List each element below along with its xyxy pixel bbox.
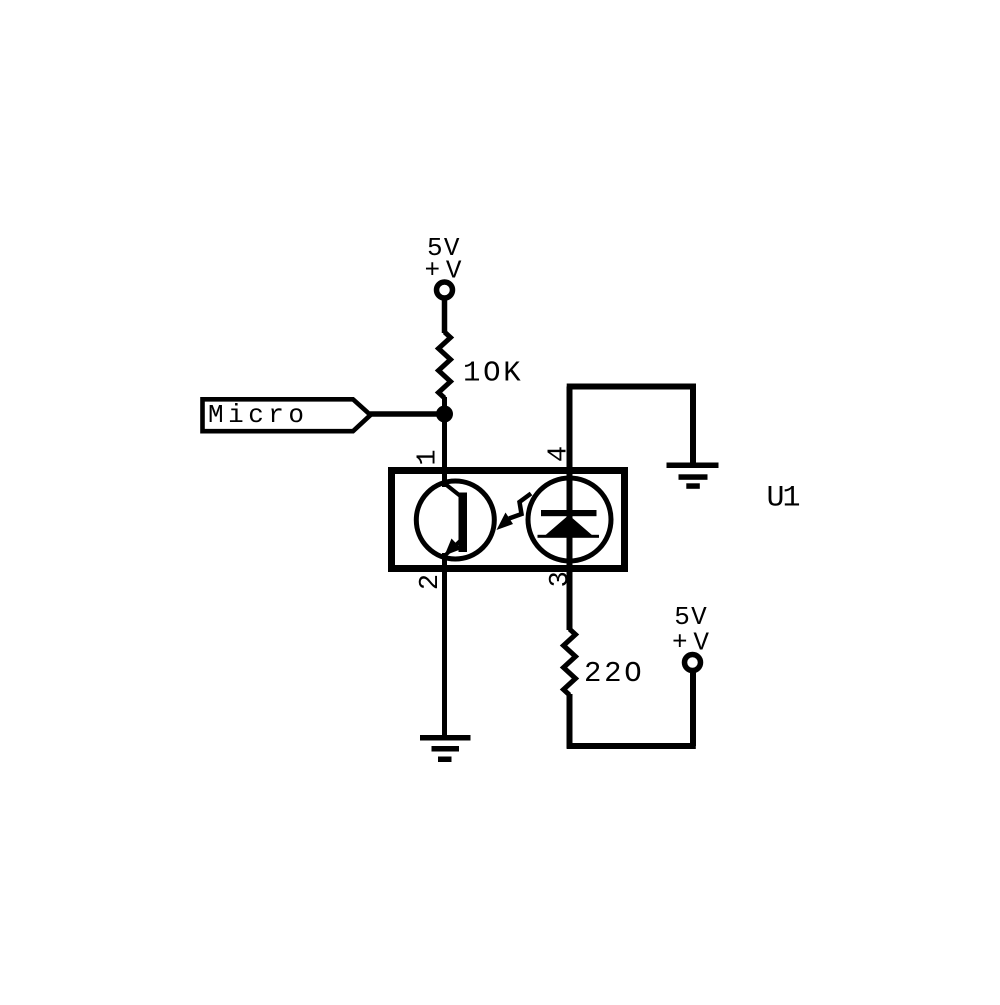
svg-text:4: 4 xyxy=(544,446,574,462)
LED cathode bar xyxy=(541,510,597,516)
ground symbol (right) xyxy=(667,463,719,489)
phototransistor circle xyxy=(416,481,494,559)
supply +V terminal circle (top) xyxy=(437,282,453,298)
ground symbol (left) xyxy=(420,735,471,762)
LED triangle xyxy=(545,515,593,536)
resistor R 220 xyxy=(564,629,576,695)
phototransistor collector line xyxy=(444,483,461,497)
wire from R1 to node xyxy=(442,397,447,414)
wire pin2 to ground (left) xyxy=(442,553,447,738)
LED circle xyxy=(528,478,611,561)
phototransistor emitter line xyxy=(445,540,462,556)
wire from +V terminal to R1 xyxy=(442,299,448,334)
svg-text:1OK: 1OK xyxy=(463,357,521,390)
wire node to pin 1 xyxy=(442,414,447,487)
light arrow head xyxy=(497,513,514,531)
wire pin4 through LED to pin3 xyxy=(567,387,573,631)
svg-text:1: 1 xyxy=(413,449,443,465)
svg-text:Micro: Micro xyxy=(208,400,304,430)
svg-text:U1: U1 xyxy=(767,482,801,516)
resistor R 10K xyxy=(439,332,451,398)
phototransistor emitter arrow xyxy=(445,539,462,556)
supply +V terminal circle (right) xyxy=(685,655,701,671)
LED anode line xyxy=(538,535,600,538)
wire pin4 top horizontal xyxy=(567,384,696,390)
wire bottom horizontal xyxy=(567,743,696,749)
net flag Micro xyxy=(203,399,371,431)
wire R220 to bottom rail xyxy=(567,694,573,749)
optocoupler U1 body box xyxy=(392,471,625,569)
node junction dot xyxy=(436,406,453,423)
svg-text:22O: 22O xyxy=(584,657,642,690)
wire down to ground (right) xyxy=(690,387,696,464)
svg-text:2: 2 xyxy=(416,574,446,590)
light arrow shaft xyxy=(509,494,531,519)
wire up to +V terminal (right) xyxy=(690,672,696,746)
svg-text:3: 3 xyxy=(546,571,576,587)
wire Micro flag to node xyxy=(370,411,445,417)
phototransistor base bar xyxy=(459,493,468,553)
